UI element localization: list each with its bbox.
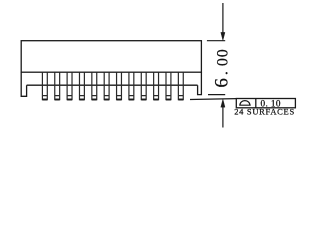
profile of a surface symbol: [239, 101, 251, 106]
pin 11: [166, 72, 171, 99]
feature control frame: [236, 99, 295, 108]
long extension line (pin tips) joining FCF top: [190, 98, 236, 101]
dimension line bottom shaft: [222, 106, 224, 128]
pin 12: [178, 72, 183, 99]
dimension line top shaft: [222, 3, 224, 33]
pin 2: [55, 72, 60, 99]
svg-text:24 SURFACES: 24 SURFACES: [234, 107, 295, 117]
pin 10: [154, 72, 159, 99]
pin 4: [79, 72, 84, 99]
pin 1: [42, 72, 47, 99]
pin 3: [67, 72, 72, 99]
pin 5: [92, 72, 97, 99]
pin tip feet (thicker bottoms): [42, 99, 183, 101]
svg-text:6.00: 6.00: [212, 49, 233, 87]
bottom arrowhead (up): [221, 99, 225, 107]
connector body outline: [21, 41, 201, 72]
top extension line (body top): [207, 40, 225, 42]
standoff line: [27, 84, 198, 86]
left mounting peg: [21, 72, 26, 96]
pin 6: [104, 72, 109, 99]
top arrowhead (down): [221, 32, 225, 40]
short extension line (right step bottom): [208, 94, 225, 96]
right step: [198, 72, 202, 94]
pin 7: [117, 72, 122, 99]
pin 8: [129, 72, 134, 99]
pin 9: [141, 72, 146, 99]
